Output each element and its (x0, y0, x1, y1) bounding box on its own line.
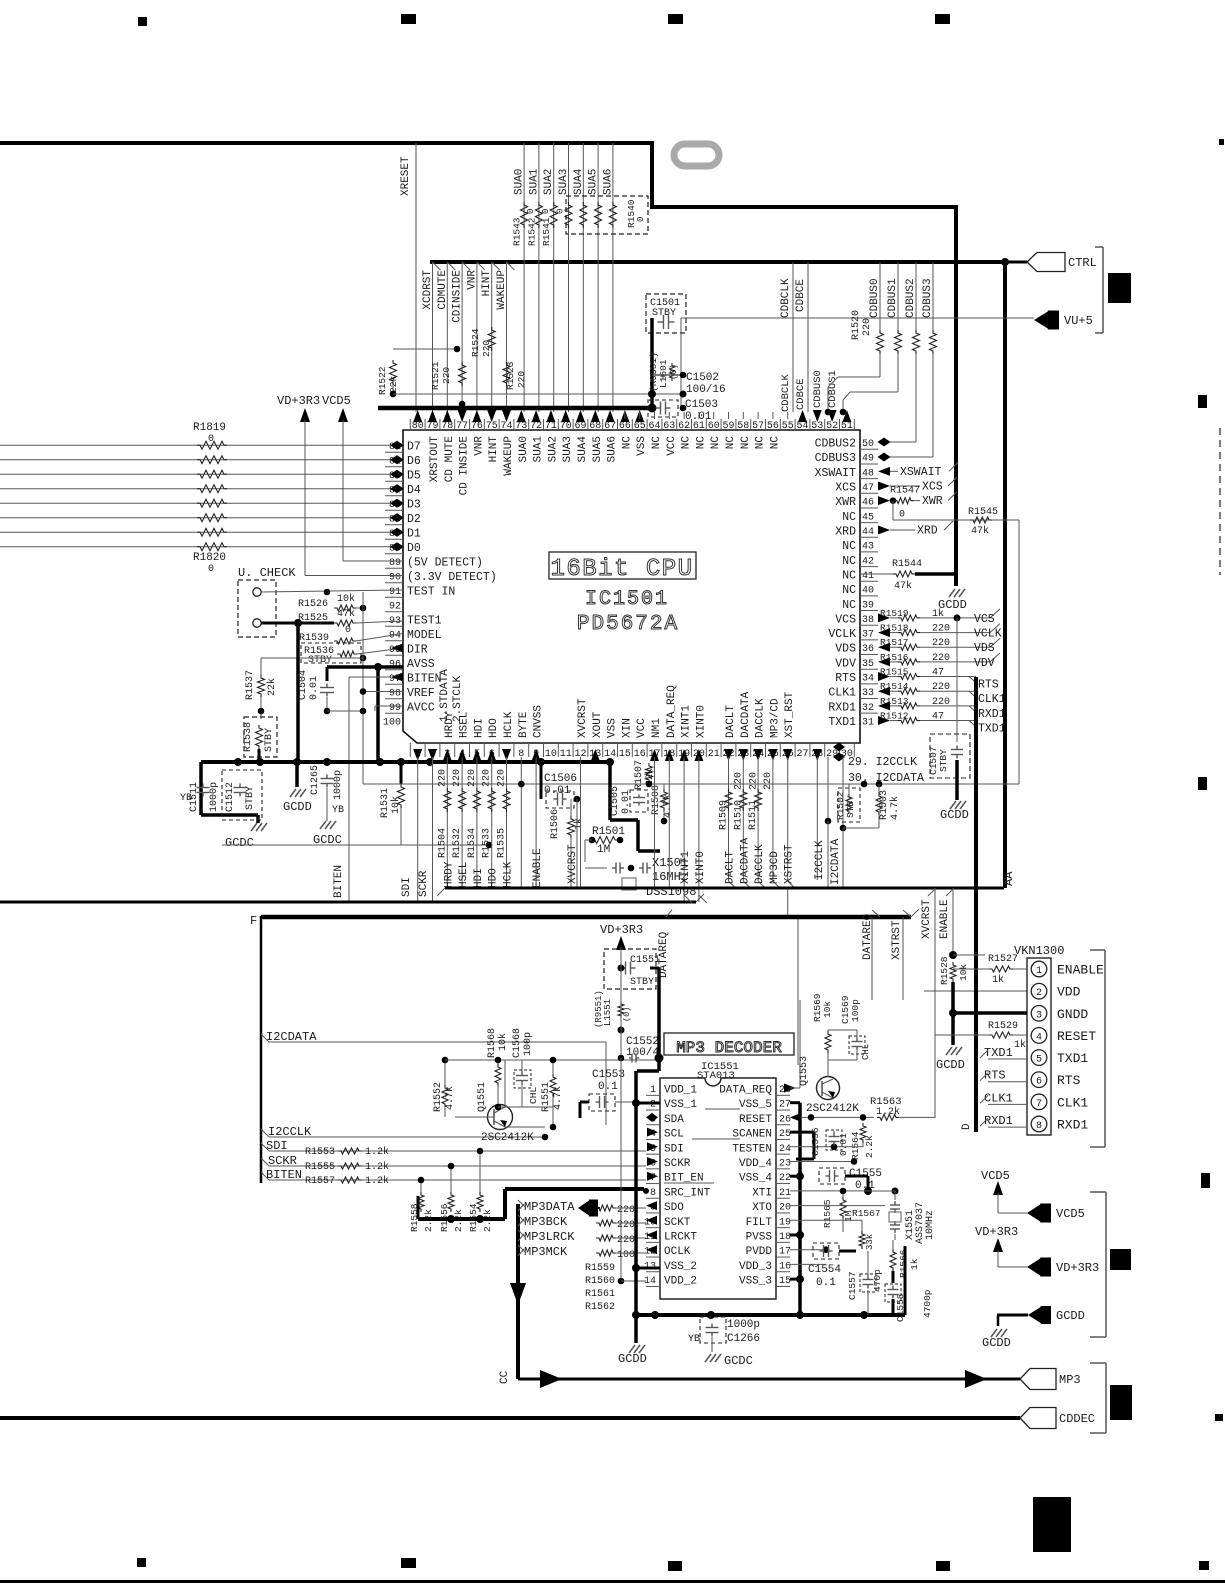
svg-text:CDBCE: CDBCE (795, 279, 807, 312)
svg-text:XRSTOUT: XRSTOUT (429, 436, 441, 483)
svg-text:R1509: R1509 (719, 800, 730, 830)
svg-text:D0: D0 (407, 542, 421, 555)
svg-text:2SC2412K: 2SC2412K (806, 1103, 859, 1115)
svg-text:70: 70 (560, 421, 572, 432)
svg-text:XINT1: XINT1 (680, 851, 692, 884)
svg-text:GNDD: GNDD (1057, 1007, 1088, 1022)
svg-text:R1524: R1524 (470, 328, 481, 357)
svg-text:GCDD: GCDD (1056, 1309, 1085, 1323)
svg-text:41: 41 (862, 571, 874, 582)
svg-text:53: 53 (811, 421, 823, 432)
svg-text:CLK1: CLK1 (978, 693, 1006, 706)
svg-text:VDS: VDS (835, 643, 856, 656)
svg-text:SDI: SDI (664, 1143, 684, 1155)
svg-text:SUA1: SUA1 (533, 436, 545, 463)
svg-text:40: 40 (862, 586, 874, 597)
svg-text:10k: 10k (822, 1001, 833, 1018)
svg-text:R1541: R1541 (541, 217, 552, 246)
svg-text:R1540: R1540 (626, 199, 637, 228)
svg-text:34: 34 (862, 674, 874, 685)
svg-text:VDD_2: VDD_2 (664, 1276, 697, 1288)
svg-text:R1537: R1537 (245, 670, 256, 700)
svg-text:29. I2CCLK: 29. I2CCLK (848, 756, 917, 769)
svg-text:VREF: VREF (407, 687, 435, 700)
svg-text:VCC: VCC (636, 718, 648, 738)
svg-text:PD5672A: PD5672A (577, 613, 679, 636)
svg-text:CDBCE: CDBCE (795, 378, 807, 410)
svg-text:MP3DATA: MP3DATA (524, 1200, 575, 1214)
svg-text:VKN1300: VKN1300 (1014, 944, 1064, 958)
svg-text:92: 92 (389, 602, 401, 613)
svg-text:100/16: 100/16 (686, 384, 726, 396)
svg-text:WAKEUP: WAKEUP (503, 436, 515, 476)
svg-text:SDO: SDO (664, 1202, 684, 1214)
svg-text:C1557: C1557 (847, 1271, 858, 1300)
svg-text:SUA5: SUA5 (588, 169, 600, 195)
svg-text:SUA4: SUA4 (573, 168, 585, 195)
svg-text:55: 55 (782, 421, 794, 432)
svg-text:VD+3R3: VD+3R3 (975, 1225, 1018, 1239)
svg-text:CDMUTE: CDMUTE (437, 270, 449, 310)
svg-text:57: 57 (752, 421, 764, 432)
svg-text:XSTRST: XSTRST (891, 920, 903, 960)
svg-text:R1503: R1503 (879, 790, 890, 820)
svg-text:FILT: FILT (746, 1217, 773, 1229)
svg-text:18: 18 (779, 1232, 791, 1243)
svg-text:SUA6: SUA6 (602, 169, 614, 195)
svg-text:76: 76 (471, 421, 483, 432)
svg-text:STBY: STBY (308, 655, 332, 666)
svg-text:XWR: XWR (835, 496, 856, 509)
svg-text:NC: NC (651, 436, 663, 450)
svg-text:C1266: C1266 (727, 1333, 760, 1345)
svg-text:CTRL: CTRL (1068, 256, 1097, 270)
svg-text:1000p: 1000p (333, 770, 344, 800)
svg-text:0: 0 (526, 209, 536, 214)
svg-text:1k: 1k (573, 818, 585, 830)
svg-text:BYTE: BYTE (518, 711, 530, 738)
svg-text:0: 0 (541, 209, 551, 214)
svg-text:220: 220 (482, 769, 493, 787)
svg-text:C1265: C1265 (310, 765, 321, 795)
svg-text:CDBUS1: CDBUS1 (887, 278, 899, 318)
svg-text:R1533: R1533 (482, 828, 493, 858)
svg-text:R1559: R1559 (585, 1263, 615, 1274)
svg-text:GCDD: GCDD (940, 808, 969, 822)
svg-text:R1544: R1544 (892, 559, 922, 570)
svg-text:5: 5 (1036, 1055, 1042, 1066)
svg-text:C1568: C1568 (512, 1028, 523, 1058)
svg-text:52: 52 (826, 421, 838, 432)
svg-text:VSS_2: VSS_2 (664, 1261, 697, 1273)
svg-text:37: 37 (862, 630, 874, 641)
svg-text:1000p: 1000p (209, 782, 220, 812)
svg-text:CDDEC: CDDEC (1059, 1412, 1095, 1426)
svg-text:R1538: R1538 (243, 722, 254, 752)
svg-text:SDI: SDI (401, 877, 413, 897)
svg-text:HDO: HDO (488, 868, 500, 888)
svg-text:D7: D7 (407, 441, 421, 454)
svg-text:22k: 22k (266, 678, 278, 696)
svg-text:4700p: 4700p (922, 1289, 933, 1318)
svg-text:SUA1: SUA1 (528, 168, 540, 195)
svg-text:SUA0: SUA0 (518, 436, 530, 462)
svg-text:NC: NC (842, 555, 856, 568)
svg-text:8: 8 (650, 1188, 656, 1199)
svg-text:XRESET: XRESET (400, 156, 412, 196)
svg-text:1000p: 1000p (727, 1319, 760, 1331)
svg-text:VNR: VNR (473, 436, 485, 456)
svg-text:MP3/CD: MP3/CD (769, 698, 781, 738)
svg-text:DACCLK: DACCLK (755, 698, 767, 738)
svg-text:R1534: R1534 (467, 828, 478, 858)
svg-text:PVSS: PVSS (746, 1232, 773, 1244)
svg-text:61: 61 (693, 421, 705, 432)
svg-text:58: 58 (737, 421, 749, 432)
svg-text:0: 0 (208, 564, 214, 575)
svg-text:220: 220 (617, 1220, 635, 1231)
svg-text:MP3CD: MP3CD (769, 851, 781, 884)
svg-text:XST_RST: XST_RST (784, 691, 796, 738)
svg-text:(5V DETECT): (5V DETECT) (407, 557, 483, 570)
svg-text:GCDD: GCDD (982, 1336, 1011, 1350)
svg-text:XRD: XRD (917, 524, 938, 537)
svg-text:AVCC: AVCC (407, 702, 435, 715)
svg-text:CDINSIDE: CDINSIDE (452, 270, 464, 323)
svg-text:R1545: R1545 (968, 507, 998, 518)
svg-text:DATA_REQ: DATA_REQ (719, 1085, 772, 1097)
svg-text:D: D (961, 1123, 973, 1130)
svg-text:XINT0: XINT0 (695, 851, 707, 884)
svg-text:10k: 10k (958, 964, 969, 981)
svg-text:CHL: CHL (861, 1044, 871, 1060)
svg-text:VSS_5: VSS_5 (739, 1099, 772, 1111)
svg-text:VCLK: VCLK (828, 628, 856, 641)
svg-text:80: 80 (412, 421, 424, 432)
svg-text:CLK1: CLK1 (1057, 1095, 1088, 1110)
svg-text:100/4: 100/4 (626, 1047, 659, 1059)
svg-text:NC: NC (621, 436, 633, 450)
svg-text:2: 2 (650, 1100, 656, 1111)
svg-text:14: 14 (644, 1276, 656, 1287)
svg-text:HDO: HDO (488, 718, 500, 738)
svg-text:VD+3R3: VD+3R3 (1056, 1261, 1099, 1275)
svg-text:10: 10 (545, 749, 557, 760)
svg-text:71: 71 (545, 421, 557, 432)
svg-text:D4: D4 (407, 484, 421, 497)
svg-text:STBY: STBY (938, 749, 949, 772)
svg-text:AA: AA (1002, 871, 1016, 886)
svg-text:SUA2: SUA2 (547, 436, 559, 462)
svg-text:0.01: 0.01 (309, 676, 320, 700)
svg-text:33: 33 (862, 688, 874, 699)
svg-text:73: 73 (515, 421, 527, 432)
svg-text:0.1: 0.1 (598, 1081, 618, 1093)
svg-text:220: 220 (467, 769, 478, 787)
svg-text:1k: 1k (909, 1258, 920, 1270)
svg-text:XINT0: XINT0 (695, 705, 707, 738)
svg-text:R1529: R1529 (988, 1021, 1018, 1032)
svg-text:C1556: C1556 (810, 1127, 821, 1156)
svg-text:R1504: R1504 (437, 828, 448, 858)
svg-text:XVCRST: XVCRST (577, 698, 589, 738)
svg-text:RTS: RTS (835, 672, 856, 685)
svg-text:TEST IN: TEST IN (407, 586, 455, 599)
svg-text:50: 50 (862, 439, 874, 450)
svg-text:VDV: VDV (974, 657, 995, 670)
svg-text:23: 23 (779, 1159, 791, 1170)
svg-text:74: 74 (500, 421, 512, 432)
svg-text:1: 1 (650, 1085, 656, 1096)
svg-text:D3: D3 (407, 499, 421, 512)
svg-text:VU+5: VU+5 (1064, 314, 1093, 328)
svg-text:NC: NC (681, 436, 693, 450)
svg-text:100: 100 (383, 718, 401, 729)
svg-text:RESET: RESET (1057, 1029, 1096, 1044)
svg-text:CNVSS: CNVSS (533, 705, 545, 738)
svg-text:VSS_1: VSS_1 (664, 1099, 697, 1111)
svg-text:R1561: R1561 (585, 1289, 615, 1300)
svg-text:36: 36 (862, 644, 874, 655)
svg-text:98: 98 (389, 689, 401, 700)
svg-text:R1506: R1506 (550, 809, 561, 839)
svg-text:SRC_INT: SRC_INT (664, 1187, 711, 1199)
svg-text:VCD5: VCD5 (322, 394, 351, 408)
svg-text:90: 90 (389, 573, 401, 584)
svg-text:60: 60 (708, 421, 720, 432)
svg-text:DACDATA: DACDATA (739, 837, 751, 884)
svg-text:220: 220 (452, 769, 463, 787)
svg-text:R1535: R1535 (497, 828, 508, 858)
svg-text:VDD: VDD (1057, 985, 1081, 1000)
svg-text:10k: 10k (337, 593, 355, 605)
svg-text:1.2k: 1.2k (365, 1146, 389, 1158)
svg-text:Q1553: Q1553 (799, 1056, 810, 1086)
svg-text:NC: NC (842, 599, 856, 612)
svg-text:10MHz: 10MHz (925, 1210, 936, 1240)
svg-text:2SC2412K: 2SC2412K (481, 1132, 534, 1144)
svg-text:NC: NC (725, 436, 737, 450)
svg-text:C1505: C1505 (610, 786, 621, 816)
svg-text:NC: NC (842, 569, 856, 582)
svg-text:16: 16 (634, 749, 646, 760)
svg-text:SUA3: SUA3 (558, 169, 570, 195)
svg-text:220: 220 (763, 772, 774, 790)
svg-text:CHL: CHL (528, 1087, 539, 1104)
svg-text:CDBUS3: CDBUS3 (922, 278, 934, 318)
svg-text:91: 91 (389, 587, 401, 598)
svg-text:470p: 470p (872, 1269, 883, 1292)
svg-text:CD MUTE: CD MUTE (444, 436, 456, 483)
svg-text:YB: YB (688, 1334, 700, 1345)
svg-text:8: 8 (1036, 1121, 1042, 1132)
svg-text:21: 21 (779, 1188, 791, 1199)
svg-text:48: 48 (862, 468, 874, 479)
svg-text:TXD1: TXD1 (828, 716, 856, 729)
svg-text:220: 220 (437, 769, 448, 787)
svg-text:R1553: R1553 (305, 1147, 335, 1158)
svg-text:HDI: HDI (473, 718, 485, 738)
svg-text:RESET: RESET (739, 1114, 772, 1126)
svg-text:ENABLE: ENABLE (1057, 963, 1104, 978)
svg-text:SUA0: SUA0 (514, 169, 526, 195)
svg-text:VDD_4: VDD_4 (739, 1158, 772, 1170)
svg-text:0: 0 (899, 510, 905, 521)
svg-text:R1539: R1539 (299, 633, 329, 644)
svg-text:XTO: XTO (752, 1202, 772, 1214)
svg-text:SUA6: SUA6 (607, 436, 619, 462)
svg-text:XIN: XIN (621, 718, 633, 738)
svg-text:VNR: VNR (466, 270, 478, 290)
svg-text:32: 32 (862, 703, 874, 714)
svg-text:HINT: HINT (488, 436, 500, 463)
svg-text:R1523: R1523 (505, 361, 516, 390)
svg-text:DATAREQ: DATAREQ (658, 931, 670, 978)
svg-text:RXD1: RXD1 (1057, 1117, 1088, 1132)
svg-text:STBY: STBY (245, 786, 256, 810)
svg-text:15: 15 (619, 749, 631, 760)
svg-text:R1819: R1819 (193, 422, 226, 434)
svg-text:CLK1: CLK1 (984, 1091, 1013, 1105)
svg-text:CD INSIDE: CD INSIDE (459, 436, 471, 496)
svg-text:CDBUS0: CDBUS0 (812, 370, 824, 408)
svg-text:XWR: XWR (922, 495, 943, 508)
svg-text:VCS: VCS (835, 613, 856, 626)
svg-text:XSWAIT: XSWAIT (815, 467, 857, 480)
svg-text:R1522: R1522 (377, 366, 388, 395)
svg-text:TXD1: TXD1 (978, 723, 1006, 736)
svg-text:220: 220 (617, 1235, 635, 1246)
svg-text:56: 56 (767, 421, 779, 432)
svg-text:R1565: R1565 (822, 1199, 833, 1228)
svg-text:Q1551: Q1551 (477, 1082, 488, 1112)
svg-text:SUA5: SUA5 (592, 436, 604, 462)
svg-text:HCLK: HCLK (503, 711, 515, 738)
svg-text:R1501: R1501 (592, 826, 625, 838)
svg-text:GCDD: GCDD (283, 800, 312, 814)
svg-text:39: 39 (862, 600, 874, 611)
svg-text:42: 42 (862, 556, 874, 567)
svg-text:R1543: R1543 (512, 217, 523, 246)
svg-text:C1554: C1554 (808, 1264, 841, 1276)
svg-text:RTS: RTS (978, 679, 999, 692)
svg-text:2.STCLK: 2.STCLK (452, 675, 464, 722)
svg-text:(3.3V DETECT): (3.3V DETECT) (407, 571, 497, 584)
svg-text:OCLK: OCLK (664, 1246, 691, 1258)
svg-text:YB: YB (180, 793, 192, 804)
svg-text:SDA: SDA (664, 1114, 684, 1126)
svg-text:ENABLE: ENABLE (532, 848, 544, 888)
svg-text:R1557: R1557 (305, 1176, 335, 1187)
svg-text:220: 220 (617, 1205, 635, 1216)
svg-text:68: 68 (589, 421, 601, 432)
svg-text:D6: D6 (407, 455, 421, 468)
svg-text:27: 27 (779, 1100, 791, 1111)
svg-text:R1568: R1568 (487, 1028, 498, 1058)
svg-text:MP3MCK: MP3MCK (524, 1245, 568, 1259)
svg-text:XOUT: XOUT (592, 711, 604, 738)
svg-text:78: 78 (441, 421, 453, 432)
svg-text:STBY: STBY (264, 728, 275, 752)
svg-text:17: 17 (779, 1247, 791, 1258)
svg-text:HDI: HDI (473, 868, 485, 888)
svg-text:NC: NC (755, 436, 767, 450)
svg-text:66: 66 (619, 421, 631, 432)
svg-text:MP3 DECODER: MP3 DECODER (676, 1039, 782, 1057)
svg-text:4.7k: 4.7k (444, 1086, 456, 1110)
svg-text:16: 16 (779, 1261, 791, 1272)
svg-text:0: 0 (208, 434, 214, 445)
svg-text:CDBUS2: CDBUS2 (905, 278, 917, 318)
svg-text:+: + (660, 373, 666, 384)
svg-text:CDBUS2: CDBUS2 (815, 438, 857, 451)
svg-text:77: 77 (456, 421, 468, 432)
svg-text:0: 0 (636, 217, 646, 222)
svg-text:1.2k: 1.2k (365, 1175, 389, 1187)
svg-text:VSS_4: VSS_4 (739, 1173, 772, 1185)
svg-text:22: 22 (779, 1173, 791, 1184)
svg-text:HCLK: HCLK (503, 861, 515, 888)
svg-text:R1511: R1511 (748, 800, 759, 830)
svg-text:SUA2: SUA2 (543, 169, 555, 195)
svg-text:DATA_REQ: DATA_REQ (666, 685, 678, 738)
svg-text:NC: NC (695, 436, 707, 450)
svg-text:51: 51 (841, 421, 853, 432)
svg-text:10k: 10k (497, 1033, 509, 1051)
svg-text:MP3: MP3 (1059, 1373, 1081, 1387)
svg-text:XRD: XRD (835, 525, 856, 538)
svg-text:0.1: 0.1 (816, 1277, 836, 1289)
svg-text:MP3BCK: MP3BCK (524, 1215, 568, 1229)
svg-text:31: 31 (862, 718, 874, 729)
svg-text:VSS: VSS (607, 718, 619, 738)
svg-text:3: 3 (1036, 1010, 1042, 1021)
svg-text:CC: CC (499, 1370, 511, 1384)
svg-text:21: 21 (708, 749, 720, 760)
svg-text:BITEN: BITEN (333, 865, 345, 898)
svg-text:I2CDATA: I2CDATA (830, 838, 842, 885)
svg-text:D5: D5 (407, 470, 421, 483)
svg-text:25: 25 (779, 1129, 791, 1140)
svg-text:XCDRST: XCDRST (422, 270, 434, 310)
svg-text:PVDD: PVDD (746, 1246, 773, 1258)
svg-text:24: 24 (779, 1144, 791, 1155)
svg-text:LRCKT: LRCKT (664, 1232, 697, 1244)
svg-text:VD+3R3: VD+3R3 (600, 923, 643, 937)
svg-text:R1510: R1510 (733, 800, 744, 830)
svg-text:62: 62 (678, 421, 690, 432)
svg-text:R1526: R1526 (298, 599, 328, 610)
svg-text:DACDATA: DACDATA (740, 691, 752, 738)
svg-text:C1553: C1553 (592, 1069, 625, 1081)
svg-text:TEST1: TEST1 (407, 615, 442, 628)
svg-text:SUA4: SUA4 (577, 436, 589, 463)
svg-text:SCKR: SCKR (664, 1158, 691, 1170)
svg-text:R1508: R1508 (651, 785, 662, 815)
svg-text:D2: D2 (407, 513, 421, 526)
svg-text:220: 220 (497, 769, 508, 787)
svg-text:47: 47 (862, 483, 874, 494)
svg-text:100: 100 (617, 1250, 635, 1261)
svg-text:C1512: C1512 (225, 782, 236, 812)
svg-text:1k: 1k (992, 974, 1004, 986)
svg-text:94: 94 (389, 631, 401, 642)
svg-text:96: 96 (389, 660, 401, 671)
svg-text:89: 89 (389, 558, 401, 569)
svg-text:XVCRST: XVCRST (567, 844, 579, 884)
svg-text:VD+3R3: VD+3R3 (277, 394, 320, 408)
svg-text:CLK1: CLK1 (828, 687, 856, 700)
